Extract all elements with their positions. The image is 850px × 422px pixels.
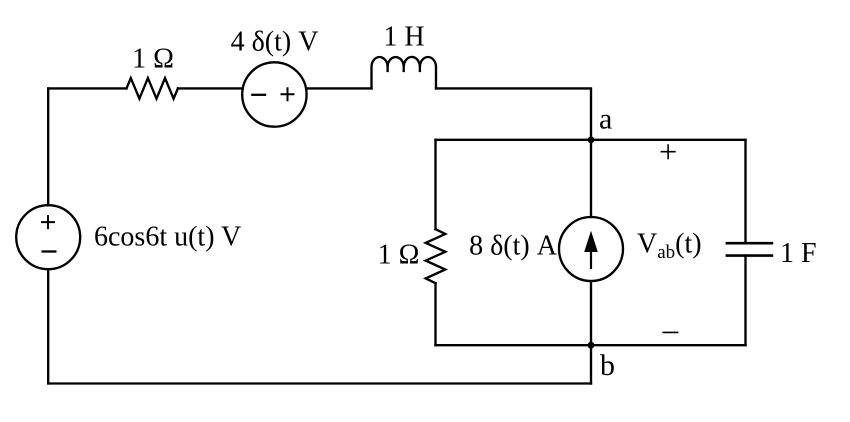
- svg-text:1 Ω: 1 Ω: [378, 240, 420, 271]
- Vab plus mark: [661, 144, 676, 159]
- V1 minus mark: [42, 250, 57, 252]
- V2 minus mark: [251, 94, 266, 96]
- inductor L1 cusp ticks: [388, 67, 420, 71]
- svg-text:b: b: [600, 349, 615, 382]
- svg-text:1 H: 1 H: [383, 22, 424, 53]
- wire top-left horizontal: [48, 87, 126, 89]
- I1 arrow: [584, 231, 598, 269]
- svg-text:1 Ω: 1 Ω: [132, 44, 174, 75]
- svg-text:a: a: [599, 103, 612, 136]
- V1 plus mark: [41, 215, 55, 229]
- wire V2 to L1: [306, 87, 371, 89]
- inductor L1: [372, 57, 437, 88]
- svg-text:4 δ(t) V: 4 δ(t) V: [231, 27, 319, 58]
- wire left branch lower: [434, 283, 436, 345]
- svg-text:Vab(t): Vab(t): [637, 229, 702, 264]
- V2 plus mark: [281, 87, 295, 101]
- wire R1 to V2: [178, 87, 243, 89]
- wire capacitor branch upper: [744, 140, 746, 243]
- wire node a to I1: [590, 140, 592, 217]
- svg-text:1 F: 1 F: [780, 238, 817, 269]
- wire left vertical lower: [47, 269, 49, 383]
- wire inner top rail: [436, 139, 746, 141]
- voltage source V2 circle: [242, 62, 306, 126]
- wire inner bottom rail: [436, 344, 746, 346]
- node b dot: [588, 342, 595, 349]
- wire L1 to top-right corner: [436, 88, 591, 139]
- wire capacitor branch lower: [744, 256, 746, 346]
- node a dot: [588, 136, 595, 143]
- wire node b stub: [590, 345, 592, 383]
- svg-text:6cos6t u(t) V: 6cos6t u(t) V: [94, 222, 241, 253]
- resistor R2: [426, 229, 446, 283]
- capacitor C1 plates: [726, 243, 774, 255]
- wire left branch upper: [434, 140, 436, 229]
- wire I1 to node b: [590, 281, 592, 345]
- Vab minus mark: [662, 331, 678, 333]
- resistor R1: [127, 78, 178, 99]
- svg-text:8 δ(t) A: 8 δ(t) A: [469, 231, 558, 262]
- wire outer bottom: [48, 382, 591, 384]
- current source I1 circle: [559, 217, 623, 281]
- wire left vertical upper: [47, 88, 49, 205]
- voltage source V1 circle: [16, 205, 80, 269]
